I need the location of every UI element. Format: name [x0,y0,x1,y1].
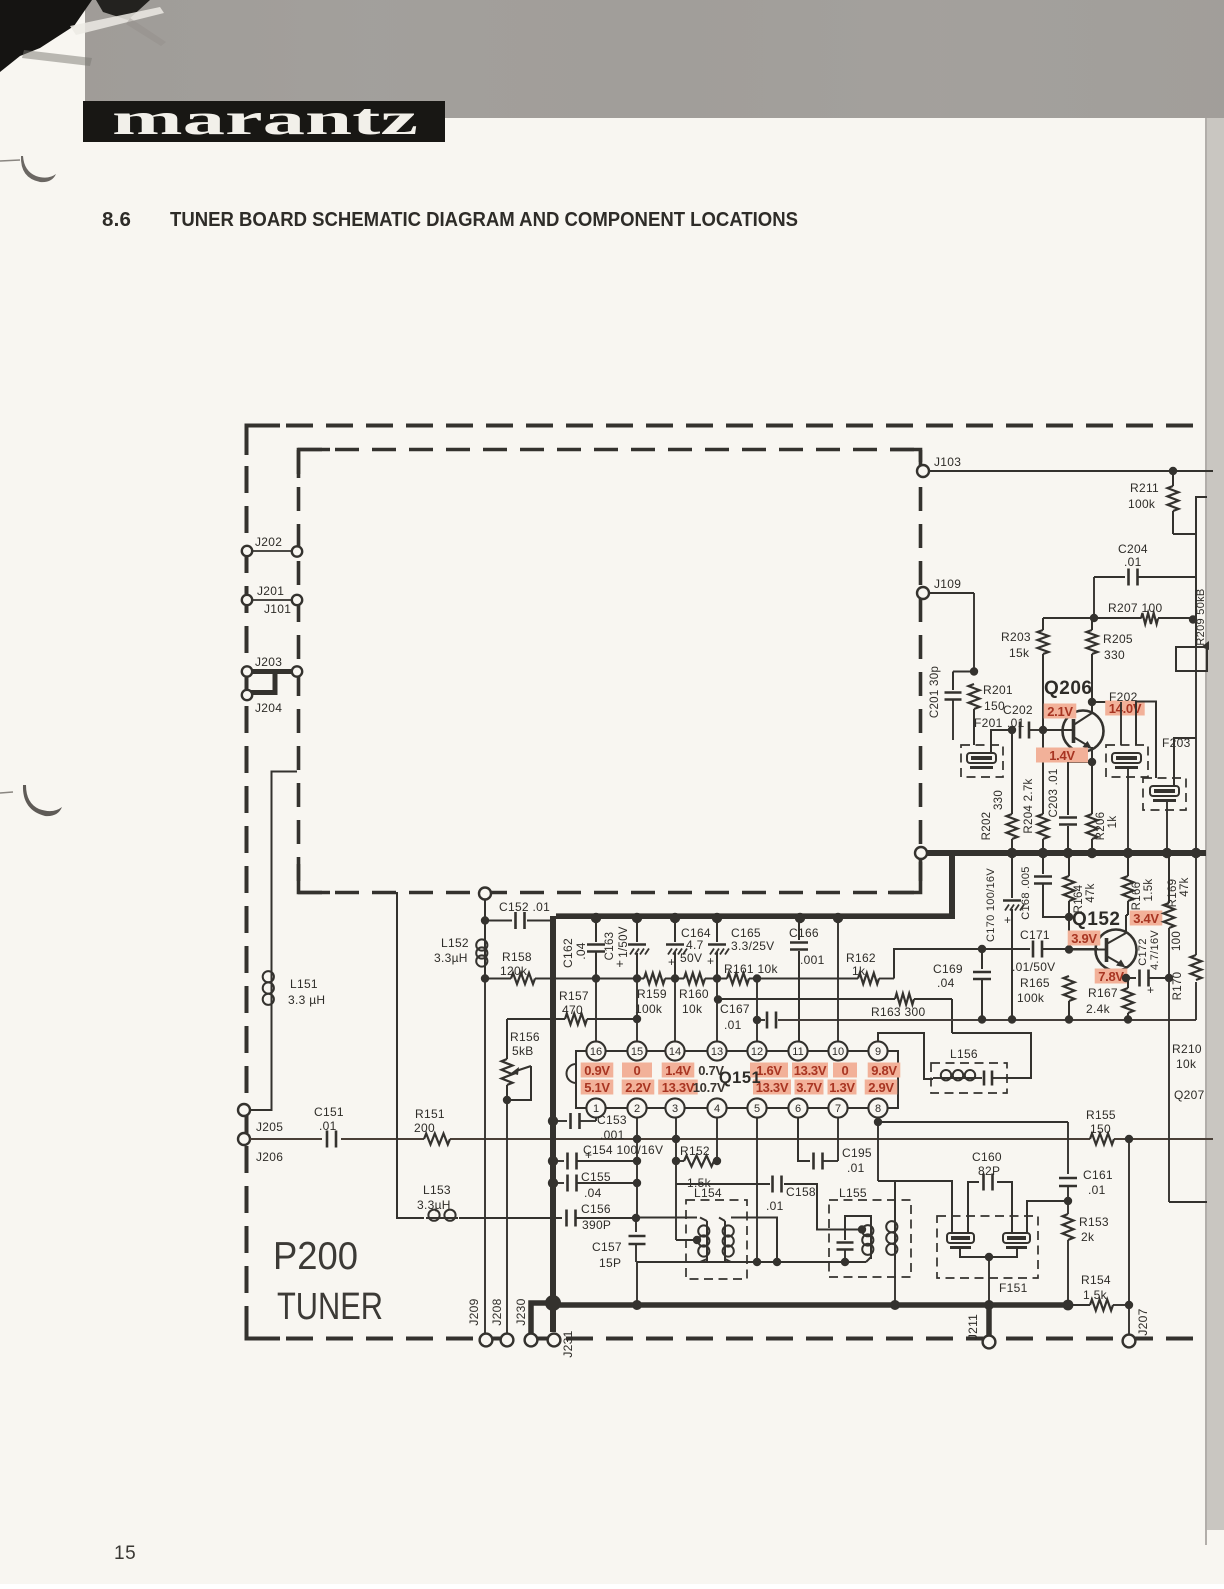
svg-text:8: 8 [875,1103,881,1115]
IC pin 11 circle [788,1041,807,1060]
svg-text:1.3V: 1.3V [829,1080,855,1095]
resistor R203 [1042,618,1044,630]
jack J205 [238,1104,250,1116]
node 2.1V [1044,704,1077,719]
svg-text:2k: 2k [1081,1230,1095,1244]
junction y1262 L155 cap [841,1258,849,1266]
wire emitter node [1068,761,1092,763]
svg-text:330: 330 [1104,648,1125,662]
svg-text:J206: J206 [256,1150,283,1164]
jack C152 entry circle on border [479,888,491,900]
svg-text:1.4V: 1.4V [1049,748,1075,763]
svg-text:R155: R155 [1086,1108,1116,1122]
svg-text:5kB: 5kB [512,1044,534,1058]
jack J203 pair thick link [252,669,292,674]
capacitor C167 [766,1012,769,1029]
capacitor C153 [553,1120,567,1122]
wire pin5 lead [756,1117,758,1262]
svg-text:R158: R158 [502,950,532,964]
resistor R206 [1091,762,1093,814]
svg-text:J202: J202 [255,535,282,549]
svg-text:J231: J231 [561,1330,575,1357]
resistor R155 [1090,1134,1114,1145]
junction R202 base node [1008,726,1016,734]
svg-text:Q206: Q206 [1044,678,1092,699]
svg-text:.01: .01 [724,1018,742,1032]
junction R155 J207 line [1125,1135,1133,1143]
wire pin11 lead [798,1041,800,1042]
resistor R169 [1168,853,1170,903]
outer dashed border top [246,424,1204,428]
resistor R157 [565,1014,587,1025]
svg-text:J203: J203 [255,655,282,669]
svg-text:F151: F151 [999,1281,1028,1295]
junction rail R153 [1063,1300,1074,1311]
wire C152 vertical [484,899,486,978]
wire pin8 to L155 secondary [878,1181,895,1216]
potentiometer R156 [506,1019,508,1059]
crystal F151 left [947,1233,974,1243]
svg-text:R153: R153 [1079,1215,1109,1229]
svg-text:R211: R211 [1130,481,1159,495]
wire F151 bottoms to J211 [960,1249,1017,1257]
node pin5 voltage [753,1080,791,1095]
svg-text:10k: 10k [682,1002,703,1016]
wire C158 line [676,1183,770,1185]
svg-text:.04: .04 [574,942,588,960]
svg-text:82P: 82P [978,1164,1000,1178]
wire pin14 lead [674,979,676,1041]
junction R164 C168 [1065,913,1073,921]
svg-text:R163 300: R163 300 [871,1005,925,1019]
junction y979 R161 R162 [753,974,761,982]
node pin2 voltage [622,1080,655,1095]
svg-text:R166: R166 [1131,882,1143,911]
svg-text:50V: 50V [680,951,702,965]
thick stub J230 [531,1303,553,1333]
svg-text:14: 14 [669,1046,681,1058]
junction bus y853 x1167 [1162,848,1172,858]
capacitor C157 [635,1218,637,1232]
junction rail C170 [1008,1015,1016,1023]
svg-text:C155: C155 [581,1170,611,1184]
svg-text:15k: 15k [1009,646,1030,660]
junction y979 C163 [633,974,641,982]
wire IF common line y1262 [637,1261,866,1263]
capacitor C163 [636,919,638,942]
resistor R153 [1067,1201,1069,1214]
wire J205 to inner border via L151 line [250,1008,272,1110]
junction y1262 pin5 [753,1258,761,1266]
junction J109 F201 node [970,667,978,675]
junction C169 top [978,945,986,953]
junction L152 R158 [481,974,489,982]
wire pin16 lead [595,979,597,1041]
svg-text:C152 .01: C152 .01 [499,900,550,914]
junction rail C169 [978,1015,986,1023]
IC pin 13 circle [707,1041,726,1060]
node pin10 voltage [833,1063,857,1078]
svg-text:J230: J230 [514,1298,528,1325]
inner border corner TL [299,450,331,479]
L155 secondary coil [894,1216,896,1260]
svg-text:J211: J211 [966,1314,980,1340]
svg-text:.01: .01 [1007,716,1025,730]
IC pin 16 circle [586,1041,605,1060]
svg-text:Q207: Q207 [1174,1088,1205,1102]
wire R156 to J208 [506,1100,508,1334]
IC pin 1 circle [586,1098,605,1117]
potentiometer R209 box [1195,647,1197,671]
svg-text:+: + [1004,913,1011,927]
wire common to rail [636,1262,638,1305]
node pin12 voltage [750,1063,788,1078]
svg-text:C151: C151 [314,1105,344,1119]
svg-text:3.3/25V: 3.3/25V [731,939,774,953]
jack J231 [548,1334,561,1347]
svg-text:J201: J201 [257,584,284,598]
svg-text:C169: C169 [933,962,963,976]
junction collector node [1088,698,1096,706]
L154 primary coil [700,1218,707,1222]
svg-text:R165: R165 [1020,976,1050,990]
capacitor C204 [1094,576,1125,578]
IC pin 7 circle [828,1098,847,1117]
capacitor C170 [1011,853,1013,898]
wire R163 line y999 [718,998,895,1000]
junction R152 right [713,1157,721,1165]
wire C195 to pin7 [823,1160,838,1162]
resistor R161 [727,973,749,984]
junction bus y919 x717 [712,913,722,923]
svg-text:15: 15 [631,1046,643,1058]
resistor R165 [1064,976,1075,1001]
inner dashed border top [298,448,921,452]
svg-text:200: 200 [414,1121,435,1135]
resistor R162 [858,973,879,984]
thick bus rail y1305 [553,1302,1069,1308]
wire pin12 lead [756,979,758,1041]
svg-text:TUNER BOARD SCHEMATIC DIAGRAM: TUNER BOARD SCHEMATIC DIAGRAM AND COMPON… [170,208,798,231]
wire J103 line [929,470,1213,472]
svg-text:470: 470 [562,1003,583,1017]
IC pin 4 circle [707,1098,726,1117]
capacitor C155 [553,1182,564,1184]
wire R211 bottom link [1173,533,1196,535]
node pin8 voltage [865,1080,898,1095]
wire L153 branch [397,892,424,1218]
junction y979 C164 [671,974,679,982]
wire R209 chain vertical [1196,497,1207,647]
svg-text:C163: C163 [604,932,616,961]
capacitor C166 [798,919,800,940]
junction rail R167 [1124,1015,1132,1023]
svg-text:J204: J204 [255,701,282,715]
resistor R167 [1126,977,1128,979]
IC pin 2 circle [627,1098,646,1117]
svg-text:C161: C161 [1083,1168,1113,1182]
svg-text:C171: C171 [1020,928,1050,942]
svg-text:F201: F201 [974,716,1003,730]
outer dashed border left [245,426,249,1338]
outer border corner BL [247,1310,281,1339]
svg-text:13.3V: 13.3V [794,1063,827,1078]
svg-text:C165: C165 [731,926,761,940]
svg-text:3.4V: 3.4V [1133,911,1159,926]
junction y1262 L154 sec [773,1258,781,1266]
svg-text:marantz: marantz [112,95,418,144]
svg-text:3.3µH: 3.3µH [434,951,468,965]
svg-text:C170 100/16V: C170 100/16V [985,868,997,942]
wire L155 secondary to rail [894,1258,896,1305]
inner dashed border right [919,450,923,892]
resistor R151 [424,1134,450,1145]
junction R156 wiper bottom [503,1096,511,1104]
svg-text:3.3µH: 3.3µH [417,1198,451,1212]
svg-text:J209: J209 [467,1298,481,1325]
right page edge strip [1207,118,1224,1530]
node pin11 voltage [792,1063,828,1078]
svg-text:C153: C153 [597,1113,627,1127]
inner border corner BR [888,862,921,893]
svg-text:5.1V: 5.1V [584,1080,610,1095]
wire L156 right to R163 node [952,1033,1031,1078]
svg-text:1.5k: 1.5k [1143,879,1155,902]
resistor R202 [1011,730,1013,814]
wire C161 junction to F151 [1027,1201,1068,1233]
svg-text:4.7: 4.7 [686,938,704,952]
capacitor C151 [326,1131,329,1148]
node pin3 voltage [658,1080,698,1095]
node pin14 voltage [662,1063,695,1078]
junction C156 C157 [632,1214,640,1222]
quad coil L156 box [931,1063,1007,1093]
svg-text:9.8V: 9.8V [871,1063,897,1078]
node pin16 voltage [581,1063,614,1078]
junction F151 bottom [985,1253,993,1261]
junction bus y853 x1043 [1038,848,1048,858]
svg-text:.04: .04 [584,1186,602,1200]
filter F151 box [937,1216,1038,1278]
svg-text:C201 30p: C201 30p [929,666,941,718]
capacitor C201 [952,672,954,691]
junction J103 R211 [1169,467,1177,475]
jack J211 [983,1336,996,1349]
capacitor C160 [982,1174,985,1191]
svg-text:L154: L154 [694,1186,722,1200]
svg-text:R161 10k: R161 10k [724,962,778,976]
svg-text:J101: J101 [264,602,291,616]
svg-text:C172: C172 [1137,938,1149,966]
inner dashed border bottom [298,891,921,895]
svg-text:390P: 390P [582,1218,611,1232]
wire crystal F151 feed [895,1181,952,1231]
svg-text:R206: R206 [1095,812,1107,841]
wire pin3 chain [675,1117,677,1240]
L156 cap [983,1071,986,1086]
junction y979 C162 [592,974,600,982]
svg-text:C203 .01: C203 .01 [1048,768,1060,817]
svg-text:15P: 15P [599,1256,621,1270]
resistor R205 [1091,618,1093,630]
svg-text:150: 150 [984,699,1005,713]
wire pin13 lead [716,979,718,1041]
punch curl mark lower [23,785,62,816]
crystal F203 [1150,786,1179,796]
svg-text:R207 100: R207 100 [1108,601,1162,615]
wire F151 left top lead [951,1231,953,1233]
junction C161 R153 [1064,1197,1072,1205]
svg-text:.01: .01 [319,1119,337,1133]
svg-text:.01: .01 [1124,555,1142,569]
wire collector to R205 and F202 [1091,654,1093,702]
jack J206 [238,1133,250,1145]
filter F203 box [1143,778,1186,810]
svg-text:R160: R160 [679,987,709,1001]
wire L154 secondary top [731,1217,777,1219]
inner border corner BL [299,864,331,893]
L155 primary coil [870,1221,872,1259]
svg-text:.01: .01 [766,1199,784,1213]
junction rail J211 [984,1300,994,1310]
svg-text:1.5k: 1.5k [1083,1288,1108,1302]
svg-text:47k: 47k [1085,883,1097,902]
svg-text:0: 0 [634,1063,641,1078]
svg-text:.01: .01 [847,1161,865,1175]
resistor R164 [1068,853,1070,876]
svg-text:C156: C156 [581,1202,611,1216]
wire pin8 node [877,1117,879,1181]
junction base node R203 [1039,726,1047,734]
svg-text:4.7/16V: 4.7/16V [1149,930,1161,970]
svg-text:100k: 100k [635,1002,663,1016]
junction Q152 base node [1065,945,1073,953]
junction C172 R169 [1165,974,1173,982]
capacitor L155 tank cap [837,1241,854,1244]
junction bus y853 x1196 [1191,848,1201,858]
svg-text:R167: R167 [1088,986,1118,1000]
capacitor C161 [1059,1177,1077,1180]
svg-text:3.3 µH: 3.3 µH [288,993,325,1007]
punch curl mark upper [21,156,56,182]
svg-text:0: 0 [842,1063,849,1078]
wire row y979 [556,978,644,980]
node pin1 voltage [581,1080,614,1095]
header gray band [85,0,1224,118]
inner dashed border left [297,450,301,892]
junction R207 R209 [1189,615,1197,623]
capacitor C195 [812,1153,815,1170]
svg-text:P200: P200 [273,1235,358,1278]
junction y979 C165 [713,974,721,982]
capacitor C203 [1067,762,1069,815]
junction R151 line pin3 [672,1135,680,1143]
node 3.4V [1130,911,1163,926]
svg-text:12: 12 [751,1046,763,1058]
svg-text:120k: 120k [500,964,528,978]
svg-text:2.1V: 2.1V [1047,704,1073,719]
svg-text:C160: C160 [972,1150,1002,1164]
svg-text:J109: J109 [934,577,961,591]
junction R152 left [672,1157,680,1165]
wire rail to R170 [1195,982,1197,1020]
svg-text:3: 3 [672,1103,678,1115]
wire J207 vertical [1128,1139,1130,1334]
svg-text:R154: R154 [1081,1273,1111,1287]
resistor R201 [969,684,980,709]
svg-text:R151: R151 [415,1107,445,1121]
resistor R211 [1172,471,1174,486]
node pin9 voltage [868,1063,901,1078]
jack bus exit circle [915,847,927,859]
junction C152 line [481,916,489,924]
svg-text:R203: R203 [1001,630,1031,644]
node pin6 voltage [795,1080,824,1095]
svg-text:2.4k: 2.4k [1086,1002,1111,1016]
transistor Q152 [1096,930,1137,971]
junction emitter node Q206 [1088,758,1096,766]
torn black corner top-left [0,0,92,72]
junction C155 bus [548,1178,558,1188]
wire R152 ends [676,1160,684,1162]
svg-text:+: + [1147,983,1154,997]
IC pin 15 circle [627,1041,646,1060]
IC pin 6 circle [788,1098,807,1117]
svg-text:C168 .005: C168 .005 [1020,866,1032,919]
wire F202 bottom [1127,769,1129,853]
wire pin2 chain [636,1117,638,1218]
IC pin 5 circle [747,1098,766,1117]
svg-text:3.7V: 3.7V [796,1080,822,1095]
svg-text:2.9V: 2.9V [868,1080,894,1095]
resistor R207 [1141,613,1158,624]
crystal F151 right [1003,1233,1030,1243]
svg-text:7: 7 [835,1103,841,1115]
wire F203 bottom [1166,802,1168,853]
capacitor C152 [485,920,512,922]
svg-text:7.8V: 7.8V [1098,969,1124,984]
wire R162 to C171 line [894,949,1030,979]
svg-text:C162: C162 [561,938,575,968]
wire R157 pot line y1019 [507,1018,565,1020]
svg-text:R204 2.7k: R204 2.7k [1023,778,1035,833]
capacitor C158 [771,1176,774,1193]
inductor L153 [426,1217,458,1219]
jack J202 pair [252,550,292,552]
svg-text:C157: C157 [592,1240,622,1254]
svg-text:0.9V: 0.9V [584,1063,610,1078]
svg-text:C195: C195 [842,1146,872,1160]
svg-text:100: 100 [1171,931,1183,951]
svg-text:1k: 1k [1107,816,1119,829]
wire L152 node to J209 [484,978,486,1334]
junction C154 pin2 [633,1157,641,1165]
svg-text:2: 2 [634,1103,640,1115]
node pin15 voltage [622,1063,652,1078]
capacitor C171 [1032,941,1035,958]
wire C204 drop [1093,577,1095,618]
svg-text:C167: C167 [720,1002,750,1016]
svg-text:C202: C202 [1003,703,1033,717]
resistor R158 [485,978,511,980]
inner border corner TR [890,450,921,463]
svg-text:C166: C166 [789,926,819,940]
outer dashed border bottom [246,1337,1204,1341]
IC pin 8 circle [868,1098,887,1117]
svg-text:Q151: Q151 [719,1069,761,1087]
wire F203 right lead [1174,738,1196,786]
svg-text:.001: .001 [600,1128,625,1142]
